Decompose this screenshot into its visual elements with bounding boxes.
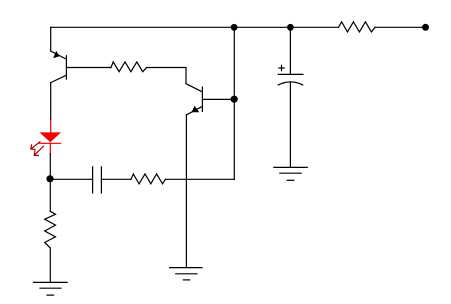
Q2 emitter diagonal [186, 106, 202, 115]
transistor Q2 (PNP, right) [186, 84, 234, 268]
ground (right, under C2) [274, 167, 307, 180]
Q2 base bar [201, 87, 203, 111]
wire top rail right segment [375, 26, 423, 28]
wire C2 top lead [289, 27, 291, 74]
wire feedback row right segment [165, 178, 234, 180]
wire vertical V+ column to feedback row [233, 27, 235, 179]
node junction LED/cap/R1 [46, 175, 53, 182]
C2 plus sign [279, 65, 284, 70]
LED triangle [40, 132, 62, 142]
Q2 emitter arrow (PNP, points to bar) [192, 106, 200, 113]
capacitor C2 (polarized) [278, 27, 303, 167]
wire from R2 to Q2 collector [147, 68, 186, 84]
wire R1 bottom lead [49, 248, 51, 282]
node junction at Q2 base / feedback [231, 96, 238, 103]
node junction at V+ / Q2 base column [231, 24, 238, 31]
wire Q1 emitter vertical [50, 27, 52, 51]
wire node to capacitor C1 [50, 178, 92, 180]
wire top rail left segment [51, 26, 339, 28]
resistor R3 [131, 174, 165, 184]
capacitor C1 [93, 167, 102, 193]
wire Q2 emitter vertical down to ground [185, 115, 187, 268]
resistor R1 (vertical) [45, 211, 56, 248]
wire C1 to R3 [101, 178, 131, 180]
C2 positive plate [278, 73, 303, 75]
wire C2 bottom lead [289, 83, 291, 167]
transistor Q1 (PNP, left) [51, 27, 111, 119]
node junction at cap C2 column [287, 24, 294, 31]
Q1 base bar [65, 56, 67, 79]
Q1 collector diagonal [51, 75, 67, 82]
C2 negative curved plate [278, 82, 302, 85]
wire Q1 collector vertical [50, 83, 52, 120]
wire R1 top lead [49, 179, 51, 211]
Q1 base lead [66, 67, 111, 69]
terminal dot [422, 24, 429, 31]
resistor R2 (base resistor) [111, 62, 147, 72]
Q2 base lead [202, 98, 234, 100]
Q1 emitter arrow (PNP, points to bar) [53, 51, 59, 58]
LED D1 (red) [31, 120, 61, 156]
LED emission arrow 1 [31, 142, 40, 150]
Q1 emitter diagonal [51, 51, 67, 59]
LED cathode red wire [49, 143, 51, 153]
ground (left) [34, 282, 68, 295]
LED emission arrow 2 [34, 146, 43, 155]
LED anode red wire [50, 120, 52, 133]
wire LED cathode to node [49, 154, 51, 179]
resistor R4 [339, 22, 376, 32]
Q2 collector diagonal [186, 84, 202, 92]
LED cathode bar [39, 142, 60, 144]
ground (middle, Q2 emitter) [170, 268, 202, 280]
